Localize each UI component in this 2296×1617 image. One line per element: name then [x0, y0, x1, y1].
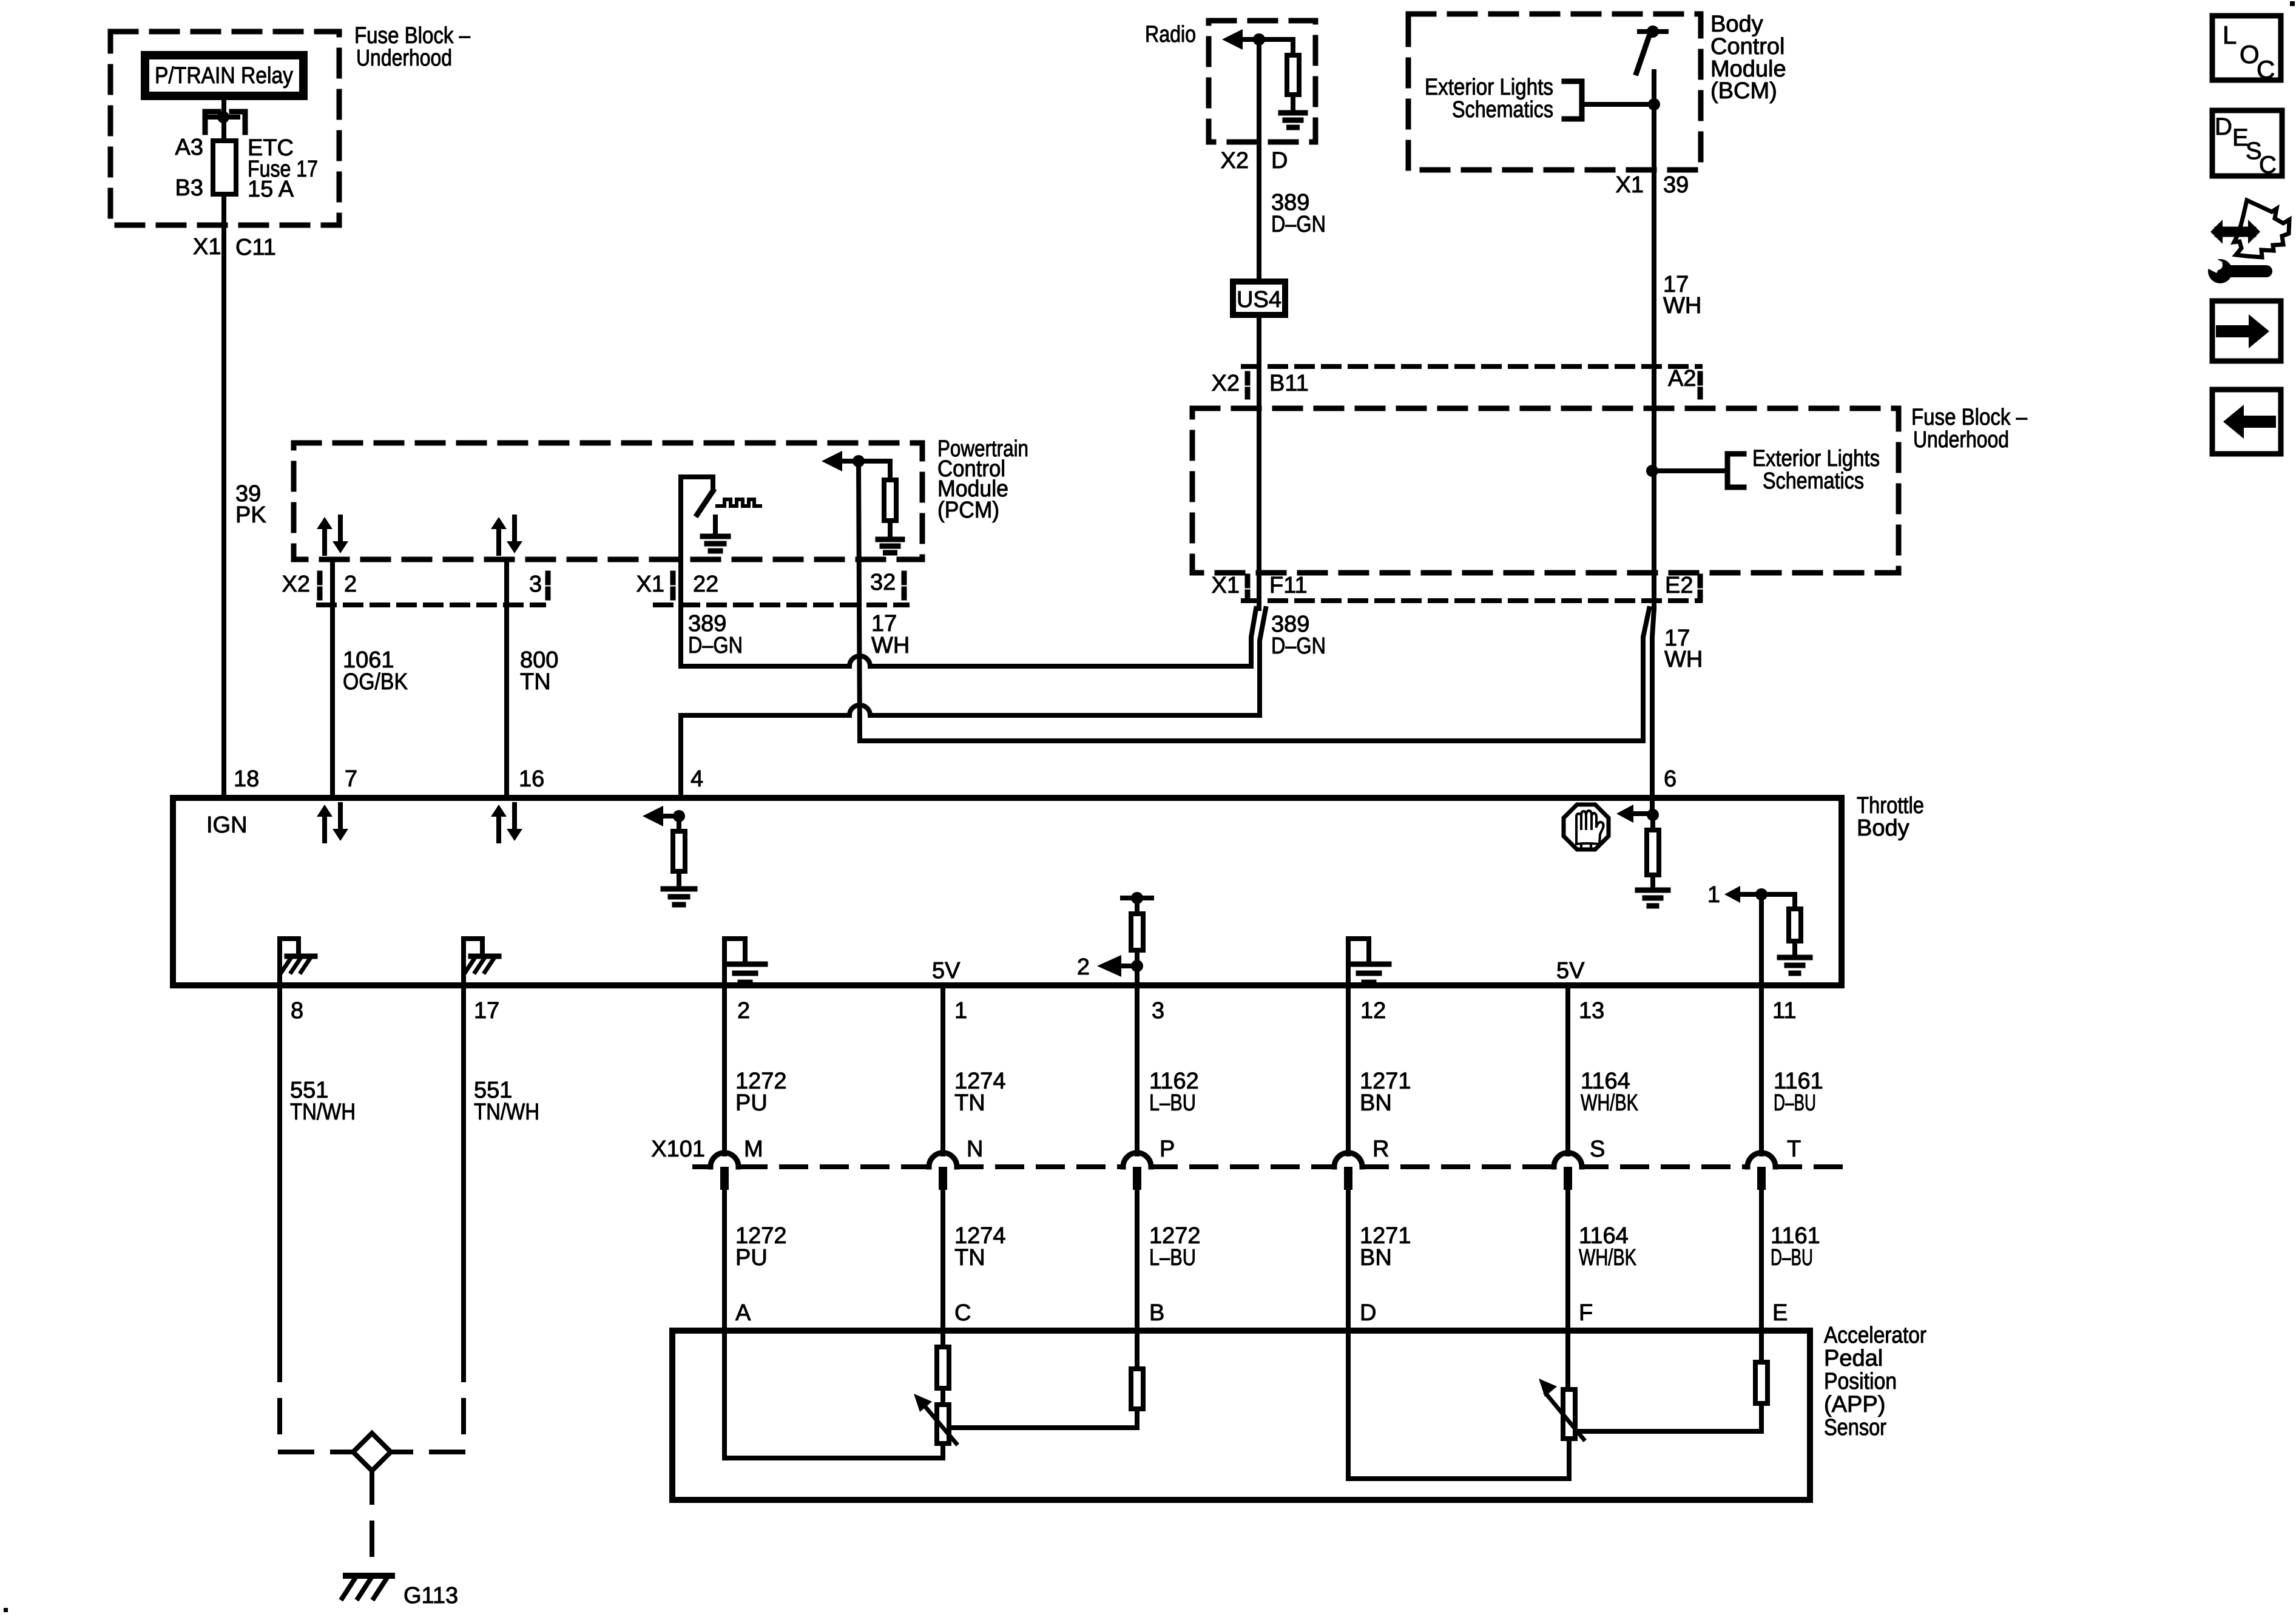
svg-text:WH: WH — [1663, 293, 1701, 319]
svg-text:TN: TN — [954, 1090, 985, 1116]
dashed wire to G113 — [370, 1471, 374, 1566]
icon: connector end view (arrow, outline, wrench) — [2220, 227, 2251, 237]
wire pin 11 from internal node — [1759, 894, 1764, 988]
relay K: P/TRAIN Relay bold box — [145, 55, 303, 96]
svg-text:2: 2 — [1077, 954, 1090, 980]
svg-text:Position: Position — [1824, 1369, 1897, 1394]
wire 551 TN/WH pin 8 to G113 — [277, 988, 282, 1348]
TB pin 6 output arrow — [1616, 805, 1633, 823]
svg-text:(PCM): (PCM) — [937, 498, 999, 523]
node: tap dot inside fuse block — [1646, 465, 1658, 477]
svg-text:1: 1 — [1707, 882, 1720, 908]
svg-text:P/TRAIN Relay: P/TRAIN Relay — [155, 63, 293, 89]
wire 1272 PU pin 2 to X101 M — [722, 988, 727, 1154]
wire 1272 L-BU X101 P to APP B — [1135, 1190, 1140, 1328]
APP left pot wiper arrow — [920, 1401, 956, 1443]
svg-text:32: 32 — [870, 570, 896, 595]
svg-text:BN: BN — [1360, 1245, 1392, 1271]
wire 1274 TN pin 1 to X101 N — [940, 988, 945, 1154]
TB pin3 resistor — [1135, 898, 1140, 914]
Powertrain Control Module dashed box — [294, 443, 922, 559]
TB bidirectional arrows (pin 16) — [491, 805, 507, 817]
svg-text:C: C — [954, 1300, 971, 1326]
X2 strip bottom dashed line — [319, 603, 544, 607]
svg-text:Accelerator: Accelerator — [1824, 1323, 1926, 1348]
fuse F17: ETC Fuse 17 15 A — [213, 141, 236, 194]
svg-text:Radio: Radio — [1145, 22, 1196, 47]
Fuse Block - Underhood (right) dashed box — [1192, 408, 1899, 573]
svg-text:X2: X2 — [1221, 148, 1249, 174]
BCM switch blade — [1636, 38, 1649, 73]
svg-text:B: B — [1149, 1300, 1164, 1326]
TB pin 4 resistor to ground — [677, 816, 681, 831]
svg-text:Exterior Lights: Exterior Lights — [1425, 75, 1553, 100]
tick — [1698, 374, 1703, 397]
svg-text:D–BU: D–BU — [1771, 1245, 1813, 1271]
svg-text:TN/WH: TN/WH — [290, 1099, 356, 1125]
svg-text:Throttle: Throttle — [1857, 793, 1924, 819]
svg-text:15 A: 15 A — [248, 177, 294, 202]
tick — [1245, 374, 1251, 397]
icon DESC box — [2212, 110, 2282, 176]
svg-text:C11: C11 — [235, 235, 276, 260]
svg-text:D–GN: D–GN — [1271, 212, 1326, 237]
svg-text:D: D — [1360, 1300, 1376, 1326]
svg-text:8: 8 — [291, 998, 303, 1024]
svg-text:(BCM): (BCM) — [1710, 78, 1777, 104]
PCM bidirectional signal arrows (pin 3) — [491, 517, 507, 529]
icon LOC box — [2212, 16, 2281, 80]
svg-text:T: T — [1787, 1136, 1801, 1162]
svg-text:BN: BN — [1360, 1090, 1392, 1116]
node: radio feed dot — [1253, 33, 1265, 46]
arrow to radio circuits — [1222, 29, 1243, 50]
svg-text:Underhood: Underhood — [356, 46, 452, 71]
svg-text:B3: B3 — [175, 175, 203, 201]
wire 1271 BN pin 12 to X101 R — [1346, 988, 1351, 1154]
svg-text:WH: WH — [1664, 647, 1703, 672]
ground G113 — [346, 1573, 392, 1579]
svg-text:IGN: IGN — [206, 812, 248, 838]
svg-text:X2: X2 — [1212, 371, 1240, 396]
wire 1164 WH/BK X101 S to APP F — [1565, 1190, 1570, 1328]
svg-text:TN/WH: TN/WH — [474, 1099, 539, 1125]
splice diamond — [353, 1433, 391, 1471]
wire 1164 WH/BK pin 13 to X101 S — [1565, 988, 1570, 1154]
ticks X1 strip — [670, 573, 676, 598]
Accelerator Pedal Position Sensor box — [672, 1331, 1810, 1500]
svg-text:E: E — [1772, 1300, 1788, 1326]
svg-text:3: 3 — [1152, 998, 1164, 1024]
hand glyph — [1575, 820, 1578, 844]
svg-text:Body: Body — [1857, 815, 1909, 841]
svg-text:D: D — [1271, 148, 1288, 174]
icon next-page arrow box — [2212, 301, 2281, 361]
svg-text:Exterior Lights: Exterior Lights — [1752, 446, 1880, 471]
svg-text:L–BU: L–BU — [1149, 1090, 1196, 1116]
node: pin 4 dot — [673, 810, 685, 822]
wire 17 WH BCM to fuse block A2 — [1652, 72, 1656, 609]
svg-text:X1: X1 — [1616, 172, 1644, 198]
svg-text:13: 13 — [1579, 998, 1604, 1024]
PCM bidirectional signal arrows (pin 2) — [317, 517, 333, 529]
TB pin 6 resistor to ground — [1650, 815, 1655, 830]
BCM switch contact dot — [1647, 25, 1659, 38]
wire 1161 D-BU X101 T to APP E — [1759, 1190, 1764, 1328]
svg-text:Control: Control — [1710, 34, 1785, 59]
svg-text:C: C — [2259, 152, 2277, 178]
TB pin 1 arrow — [1724, 886, 1740, 903]
APP wire E resistor to wiper — [1577, 1403, 1761, 1431]
PCM pull-up resistor — [888, 461, 893, 480]
svg-text:C: C — [2257, 55, 2275, 84]
APP left pot: C wire and resistor — [940, 1328, 945, 1347]
svg-text:Schematics: Schematics — [1452, 97, 1553, 123]
icon prev-page arrow box — [2212, 390, 2281, 454]
svg-text:17: 17 — [474, 998, 499, 1024]
svg-text:N: N — [967, 1136, 983, 1162]
svg-text:F11: F11 — [1269, 573, 1308, 598]
svg-text:1: 1 — [954, 998, 967, 1024]
page corner marks — [2290, 1, 2295, 6]
node: internal pin1 dot — [1755, 888, 1768, 900]
svg-text:PK: PK — [235, 502, 266, 528]
wire from relay to fuse — [221, 96, 226, 138]
wire 1274 TN X101 N to APP C — [940, 1190, 945, 1328]
wire 17 WH E2 to throttle body pin 6 — [1652, 609, 1654, 815]
PCM switch ground — [713, 517, 718, 534]
svg-text:A2: A2 — [1668, 366, 1696, 391]
icon wrench — [2208, 259, 2232, 283]
svg-text:Body: Body — [1710, 12, 1763, 37]
svg-text:2: 2 — [737, 998, 750, 1024]
wire 389 D-GN PCM pin22 to F11 with hop — [681, 477, 1256, 666]
node: pin 6 dot — [1647, 809, 1659, 821]
svg-text:6: 6 — [1664, 766, 1676, 792]
svg-text:22: 22 — [693, 572, 718, 597]
ticks X2 strip — [317, 573, 323, 598]
svg-text:4: 4 — [690, 766, 703, 792]
bracket to exterior lights schematics (fuse block) — [1727, 454, 1744, 487]
svg-text:L–BU: L–BU — [1149, 1245, 1196, 1271]
svg-text:A: A — [735, 1300, 751, 1326]
wire 389 D-GN radio to fuse block F11 — [1257, 39, 1261, 609]
svg-text:7: 7 — [345, 766, 357, 792]
APP left pot wiper element — [937, 1405, 949, 1443]
svg-text:TN: TN — [520, 669, 551, 695]
svg-text:PU: PU — [735, 1090, 768, 1116]
svg-text:39: 39 — [1663, 172, 1689, 198]
X101 dashed line — [695, 1164, 711, 1169]
wire 551 TN/WH pin 17 to G113 — [461, 988, 466, 1348]
node: pin 3 internal dot — [1131, 960, 1143, 972]
svg-text:D: D — [2215, 113, 2232, 140]
connector strip X1/F11/E2 dashed line — [1243, 598, 1700, 603]
svg-text:11: 11 — [1772, 998, 1796, 1024]
X1 strip bottom dashed line — [655, 603, 907, 607]
TB internal chassis ground pin 17 — [464, 939, 482, 988]
svg-text:16: 16 — [519, 766, 544, 792]
svg-text:Underhood: Underhood — [1913, 427, 2009, 453]
tick — [1245, 576, 1251, 599]
PCM resistor ground — [878, 537, 902, 542]
svg-text:F: F — [1579, 1300, 1593, 1326]
svg-text:12: 12 — [1360, 998, 1386, 1024]
wire 1061 OG/BK PCM pin2 to throttle body pin 7 — [330, 562, 335, 795]
PCM logic pulse symbol — [717, 499, 760, 506]
relay output bracket terminals — [205, 112, 218, 132]
TB internal ground pin 2 — [724, 939, 745, 988]
svg-text:3: 3 — [529, 572, 542, 597]
svg-text:D–BU: D–BU — [1774, 1090, 1816, 1116]
wire 1161 D-BU pin 11 to X101 T — [1759, 988, 1764, 1154]
svg-text:X101: X101 — [651, 1136, 705, 1162]
TB pin 4 output arrow — [643, 806, 663, 826]
svg-text:Fuse Block –: Fuse Block – — [354, 23, 471, 49]
wire 800 TN PCM pin3 to throttle body pin 16 — [504, 562, 509, 795]
svg-text:OG/BK: OG/BK — [343, 669, 408, 695]
tick — [1698, 576, 1703, 599]
splice US4 box — [1233, 282, 1285, 315]
svg-text:A3: A3 — [175, 135, 203, 160]
svg-text:Pedal: Pedal — [1824, 1346, 1883, 1371]
svg-text:WH/BK: WH/BK — [1581, 1090, 1638, 1116]
svg-text:TN: TN — [954, 1245, 985, 1271]
svg-text:X2: X2 — [282, 572, 310, 597]
APP right pot wiper element on F — [1565, 1328, 1570, 1389]
fuse block underhood (top-left) dashed box — [110, 32, 339, 225]
svg-text:Sensor: Sensor — [1824, 1415, 1886, 1440]
svg-text:G113: G113 — [403, 1583, 458, 1609]
PCM output arrow (pin 32) — [822, 451, 842, 471]
APP left pot: B resistor — [1135, 1328, 1140, 1369]
PCM driver switch (pin 22) — [681, 474, 713, 479]
wire 39 PK from fuse to throttle body pin 18 — [221, 197, 226, 795]
wire 1162 L-BU pin 3 to X101 P — [1135, 988, 1140, 1154]
TB 5V supply bar (pin 3) — [1123, 896, 1152, 900]
node: relay output junction dot — [217, 111, 229, 123]
svg-text:5V: 5V — [1556, 958, 1585, 984]
Throttle Body box — [173, 798, 1842, 985]
svg-text:WH/BK: WH/BK — [1579, 1245, 1636, 1271]
APP left pot bottom wire to A — [724, 1328, 943, 1458]
node: BCM output junction dot — [1648, 98, 1660, 110]
stop hand octagon icon — [1564, 805, 1609, 849]
svg-text:(APP): (APP) — [1824, 1392, 1885, 1417]
APP right pot: D wire to bottom — [1348, 1328, 1569, 1479]
svg-text:WH: WH — [871, 633, 910, 658]
svg-text:M: M — [744, 1136, 763, 1162]
svg-text:X1: X1 — [636, 572, 664, 597]
TB internal chassis ground pin 8 — [280, 939, 299, 988]
TB pin 3 arrow and 2 label — [1097, 955, 1121, 977]
TB internal ground pin 12 — [1348, 939, 1369, 988]
svg-text:E2: E2 — [1665, 573, 1693, 598]
node: PCM pin 32 junction dot — [853, 455, 865, 467]
svg-text:P: P — [1160, 1136, 1175, 1162]
svg-text:5V: 5V — [932, 958, 961, 984]
BCM bracket to exterior lights schematics — [1564, 81, 1582, 119]
svg-text:Schematics: Schematics — [1763, 468, 1864, 494]
svg-text:Fuse Block –: Fuse Block – — [1911, 405, 2028, 430]
svg-text:X1: X1 — [1212, 573, 1240, 598]
APP wire B resistor to wiper — [951, 1409, 1137, 1428]
svg-text:US4: US4 — [1237, 287, 1281, 312]
svg-text:B11: B11 — [1269, 371, 1309, 396]
Body Control Module dashed box — [1408, 14, 1701, 170]
Radio dashed box — [1209, 21, 1315, 142]
TB pin 1 resistor to ground — [1761, 892, 1795, 897]
X101 connector bumps and pins — [711, 1153, 738, 1167]
TB bidirectional arrows (pin 7) — [317, 805, 333, 817]
APP right pot wiper arrow — [1546, 1394, 1584, 1439]
svg-text:D–GN: D–GN — [1271, 633, 1326, 659]
resistor in radio — [1291, 39, 1295, 55]
svg-text:2: 2 — [344, 572, 357, 597]
connector strip X2/B11/A2 dashed line — [1243, 364, 1700, 369]
wire 1271 BN X101 R to APP D — [1346, 1190, 1351, 1328]
svg-text:18: 18 — [234, 766, 259, 792]
wire 1272 PU X101 M to APP A — [722, 1190, 727, 1328]
svg-text:L: L — [2223, 21, 2237, 49]
ground in radio — [1281, 110, 1305, 116]
wire 389 D-GN throttle body pin4 to F11 with hop — [681, 609, 1266, 795]
svg-text:PU: PU — [735, 1245, 768, 1271]
svg-text:D–GN: D–GN — [688, 633, 743, 658]
APP right pot: E resistor — [1759, 1328, 1764, 1362]
svg-text:S: S — [1590, 1136, 1605, 1162]
svg-text:X1: X1 — [193, 234, 221, 260]
svg-text:R: R — [1373, 1136, 1389, 1162]
wire 17 WH PCM pin32 to E2 — [859, 461, 1649, 741]
